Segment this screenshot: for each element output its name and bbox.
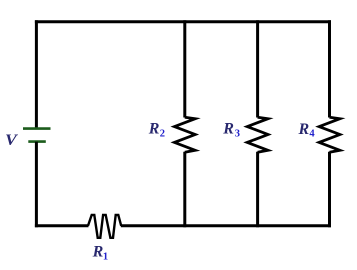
wire bottom rail left of R1 [35, 224, 89, 227]
svg-text:R: R [148, 121, 160, 138]
wire branch R2 upper segment [183, 20, 186, 117]
svg-text:2: 2 [160, 128, 165, 139]
svg-text:R: R [298, 121, 310, 138]
wire bottom rail right of R1 [121, 224, 331, 227]
resistor R1 zigzag [88, 215, 121, 238]
svg-text:4: 4 [309, 129, 315, 140]
svg-text:R: R [92, 243, 104, 260]
wire top rail [35, 20, 331, 23]
wire branch R3 lower segment [256, 152, 259, 228]
svg-text:3: 3 [235, 128, 240, 139]
label R1 [92, 243, 109, 262]
wire branch R3 upper segment [256, 20, 259, 117]
label R2 [148, 121, 165, 140]
wire left rail lower segment [35, 142, 38, 228]
resistor R2 zigzag [174, 117, 195, 152]
svg-text:R: R [222, 121, 234, 138]
wire branch R2 lower segment [183, 152, 186, 228]
resistor R3 zigzag [247, 117, 268, 152]
label R3 [222, 121, 240, 140]
battery V bottom plate [28, 140, 46, 143]
wire left rail upper segment [35, 20, 38, 128]
svg-text:V: V [5, 131, 19, 149]
svg-text:1: 1 [103, 251, 108, 262]
wire right rail upper segment [328, 20, 331, 117]
label R4 [298, 121, 316, 140]
wire right rail lower segment [328, 152, 331, 228]
battery V top plate [23, 127, 51, 130]
resistor R4 zigzag [319, 117, 340, 152]
